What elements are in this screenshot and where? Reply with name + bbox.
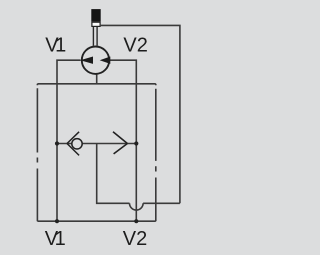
svg-text:V1: V1	[45, 228, 66, 250]
svg-text:V1: V1	[45, 35, 66, 57]
svg-text:V2: V2	[123, 35, 147, 57]
svg-text:V2: V2	[123, 228, 147, 250]
